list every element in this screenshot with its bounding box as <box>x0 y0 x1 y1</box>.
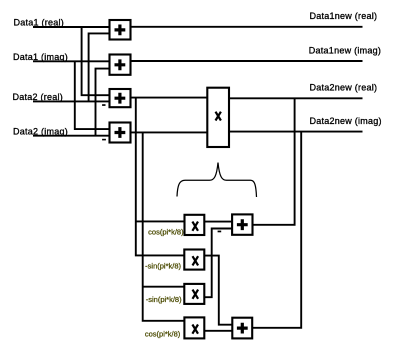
minus sign at adder U3 input <box>102 104 105 106</box>
adder U10 <box>232 214 252 234</box>
X glyph U9 <box>192 325 198 334</box>
multiplier U5 complex multiply <box>207 88 229 147</box>
label Data2 (real) <box>13 92 64 102</box>
svg-text:Data2 (imag): Data2 (imag) <box>13 127 68 137</box>
minus sign at adder U4 input <box>102 139 106 141</box>
label Data1 (imag) <box>13 52 68 62</box>
X glyph U8 <box>193 290 199 299</box>
svg-text:cos(pi*k/8): cos(pi*k/8) <box>148 227 184 236</box>
multiplier U6 <box>185 215 205 235</box>
label -sin(pi*k/8) U7 <box>145 261 181 270</box>
svg-text:Data2 (real): Data2 (real) <box>13 92 64 102</box>
plus sign U10 <box>237 219 248 230</box>
wire Data1(imag) to adder U4 upper input <box>75 61 110 129</box>
plus sign U11 <box>237 323 248 334</box>
plus sign U4 <box>115 127 126 138</box>
label Data2 (imag) <box>13 127 68 137</box>
X glyph U7 <box>193 256 199 265</box>
wire temp real down to multiplier U6 and U7 <box>136 98 185 256</box>
plus sign U2 <box>115 59 126 70</box>
label Data1 (real) <box>14 18 65 28</box>
wire Data2(real) to adder U1 lower input <box>89 33 110 101</box>
adder U1 <box>110 20 131 40</box>
minus sign at adder U10 input <box>218 231 222 233</box>
wire Data1new (imag) output <box>131 60 363 62</box>
wire temp real to multiplier U6 input <box>136 220 185 222</box>
multiplier U9 <box>184 317 204 338</box>
label Data1new (real) <box>310 11 378 21</box>
X glyph U5 <box>216 112 221 121</box>
wire adder U10 output up to Data2new (real) <box>253 98 295 225</box>
X glyph U6 <box>192 222 198 231</box>
adder U11 <box>232 318 252 339</box>
brace pointing to multiplier U5 <box>177 163 257 198</box>
wire Data1 (imag) input <box>33 60 110 62</box>
plus sign U3 <box>115 93 126 104</box>
adder U2 <box>110 55 131 75</box>
label -sin(pi*k/8) U8 <box>146 295 182 304</box>
wire adder U4 output to multiplier U5 <box>131 131 208 133</box>
wire adder U3 output to multiplier U5 <box>131 97 208 99</box>
wire temp imag down to multiplier U8 and U9 <box>143 132 185 320</box>
svg-text:Data2new (real): Data2new (real) <box>310 83 378 93</box>
wire temp imag to multiplier U8 input <box>143 286 185 288</box>
wire multiplier U9 output to adder U11 lower input <box>204 330 232 332</box>
svg-text:Data1 (real): Data1 (real) <box>14 18 65 28</box>
wire Data1 (real) input <box>33 26 110 28</box>
plus sign U1 <box>115 25 126 36</box>
svg-text:-sin(pi*k/8): -sin(pi*k/8) <box>145 261 181 270</box>
wire Data1new (real) output <box>131 26 363 28</box>
label cos(pi*k/8) U9 <box>145 329 181 338</box>
wire Data2new (imag) output <box>229 131 363 133</box>
wire multiplier U6 output to adder U10 <box>204 221 232 223</box>
svg-text:Data1new (real): Data1new (real) <box>310 11 378 21</box>
svg-text:Data1 (imag): Data1 (imag) <box>13 52 68 62</box>
label Data1new (imag) <box>309 46 381 56</box>
svg-text:Data1new (imag): Data1new (imag) <box>309 46 381 56</box>
wire multiplier U8 output to adder U10 lower input <box>204 229 232 298</box>
svg-text:Data2new (imag): Data2new (imag) <box>310 116 382 126</box>
svg-text:-sin(pi*k/8): -sin(pi*k/8) <box>146 295 182 304</box>
wire Data2 (real) input <box>33 100 110 102</box>
adder U3 <box>110 89 131 107</box>
adder U4 <box>110 123 131 143</box>
label Data2new (real) <box>310 83 378 93</box>
multiplier U7 <box>184 250 204 270</box>
wire Data2new (real) output <box>229 97 363 99</box>
wire Data1(real) to adder U3 upper input <box>82 27 110 95</box>
wire adder U11 output up to Data2new (imag) <box>252 132 301 328</box>
label Data2new (imag) <box>310 116 382 126</box>
svg-text:cos(pi*k/8): cos(pi*k/8) <box>145 329 181 338</box>
label cos(pi*k/8) U6 <box>148 227 184 236</box>
wire multiplier U7 output to adder U11 <box>204 256 232 325</box>
multiplier U8 <box>184 284 204 304</box>
wire Data2(imag) to adder U2 lower input <box>96 69 110 136</box>
wire Data2 (imag) input <box>33 135 110 137</box>
